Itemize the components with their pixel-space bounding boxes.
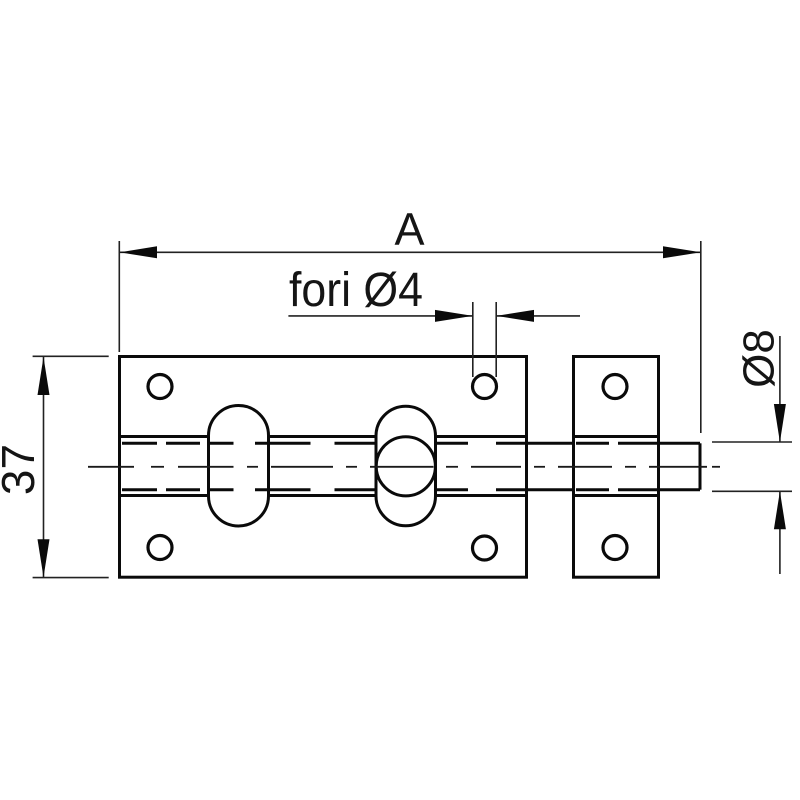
dimension 37 line [43, 357, 45, 577]
slot bottom line segments [120, 494, 659, 497]
keeper plate [574, 357, 659, 578]
dimension fori Ø4 arrow pointing right [435, 310, 473, 322]
dimension Ø8 line upper [779, 336, 781, 442]
knob circle [376, 437, 435, 496]
bolt rod hidden top edge (dashed) [122, 442, 657, 445]
centerline (dash-dot) [88, 466, 720, 468]
keeper hole bottom [603, 536, 627, 560]
svg-text:37: 37 [0, 444, 44, 495]
hole top-left [148, 375, 172, 399]
slot top line segments [120, 435, 659, 438]
svg-text:Ø8: Ø8 [735, 329, 784, 388]
hole bottom-left [148, 536, 172, 560]
dimension fori Ø4 extension line right [495, 302, 497, 377]
hole bottom-right [473, 536, 497, 560]
dimension A extension line right [700, 241, 702, 433]
dimension A arrow right [663, 246, 701, 258]
main plate [120, 357, 527, 578]
dimension Ø8 arrow pointing down [774, 404, 786, 442]
dimension A arrow left [120, 246, 158, 258]
svg-text:A: A [394, 204, 424, 255]
dimension Ø8 extension line bottom [712, 490, 792, 492]
bolt rod visible right end [659, 443, 701, 489]
hole top-right [473, 375, 497, 399]
dimension 37 extension line top [33, 355, 109, 357]
dimension A extension line left [118, 241, 120, 352]
dimension fori Ø4 line right part [496, 315, 580, 317]
dimension Ø8 arrow pointing up [774, 491, 786, 529]
dimension 37 arrow bottom [38, 539, 50, 577]
right guide loop (stadium) [376, 406, 436, 525]
dimension 37 arrow top [38, 357, 50, 395]
dimension 37 extension line bottom [33, 577, 109, 579]
left guide loop (stadium) [209, 406, 269, 527]
bolt rod visible between plates [527, 443, 574, 489]
dimension fori Ø4 arrow pointing left [496, 310, 534, 322]
dimension Ø8 extension line top [712, 441, 792, 443]
dimension fori Ø4 extension line left [472, 302, 474, 377]
dimension A line [120, 251, 701, 253]
bolt rod hidden bottom edge (dashed) [122, 488, 657, 491]
keeper hole top [603, 375, 627, 399]
dimension Ø8 line lower [779, 491, 781, 574]
dimension fori Ø4 line left part [288, 315, 472, 317]
svg-text:fori Ø4: fori Ø4 [289, 264, 423, 317]
